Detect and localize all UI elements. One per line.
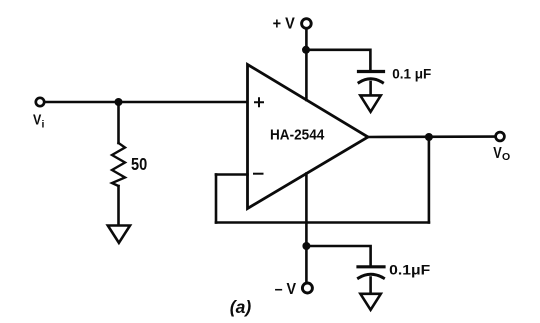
- node output junction: [425, 133, 433, 141]
- svg-text:50: 50: [131, 154, 147, 174]
- svg-text:– V: – V: [275, 281, 297, 298]
- wire +V to C1: [306, 50, 370, 70]
- node -V junction: [302, 242, 310, 250]
- wire resistor top lead: [117, 102, 120, 143]
- wire resistor bottom lead: [117, 186, 120, 224]
- svg-text:V: V: [493, 145, 502, 162]
- wire -V to C2: [306, 246, 370, 265]
- wire feedback down: [428, 137, 431, 223]
- svg-text:O: O: [502, 151, 510, 163]
- capacitor C1 0.1uF: [359, 72, 384, 83]
- wire input horizontal: [45, 101, 247, 104]
- svg-text:(a): (a): [230, 297, 252, 317]
- svg-text:V: V: [33, 111, 41, 128]
- pin - minus symbol: [254, 173, 263, 175]
- op-amp U1 HA-2544 triangle: [248, 65, 369, 209]
- wire feedback bottom: [216, 221, 429, 224]
- terminal Vo: [496, 132, 505, 141]
- wire C1 to ground: [369, 82, 372, 94]
- ground input: [108, 226, 130, 243]
- terminal Vi input: [36, 98, 44, 106]
- pin + plus symbol: [255, 98, 263, 106]
- ground C1: [360, 95, 381, 111]
- terminal +V: [302, 19, 312, 29]
- ground C2: [360, 294, 380, 310]
- svg-text:+ V: + V: [273, 16, 295, 33]
- terminal -V: [302, 283, 312, 293]
- svg-text:0.1μF: 0.1μF: [389, 263, 430, 278]
- svg-text:0.1 μF: 0.1 μF: [392, 66, 431, 81]
- svg-text:HA-2544: HA-2544: [270, 127, 325, 144]
- resistor R 50: [112, 143, 125, 186]
- svg-text:i: i: [42, 119, 45, 131]
- wire +V vertical: [305, 29, 308, 100]
- wire -V vertical: [305, 174, 308, 283]
- node +V junction: [302, 46, 310, 54]
- wire feedback into - input: [216, 173, 248, 176]
- capacitor C2 0.1uF: [358, 267, 384, 278]
- wire C2 to ground: [369, 278, 372, 293]
- node input junction: [115, 98, 123, 106]
- wire feedback up: [215, 175, 218, 223]
- wire output: [368, 135, 495, 138]
